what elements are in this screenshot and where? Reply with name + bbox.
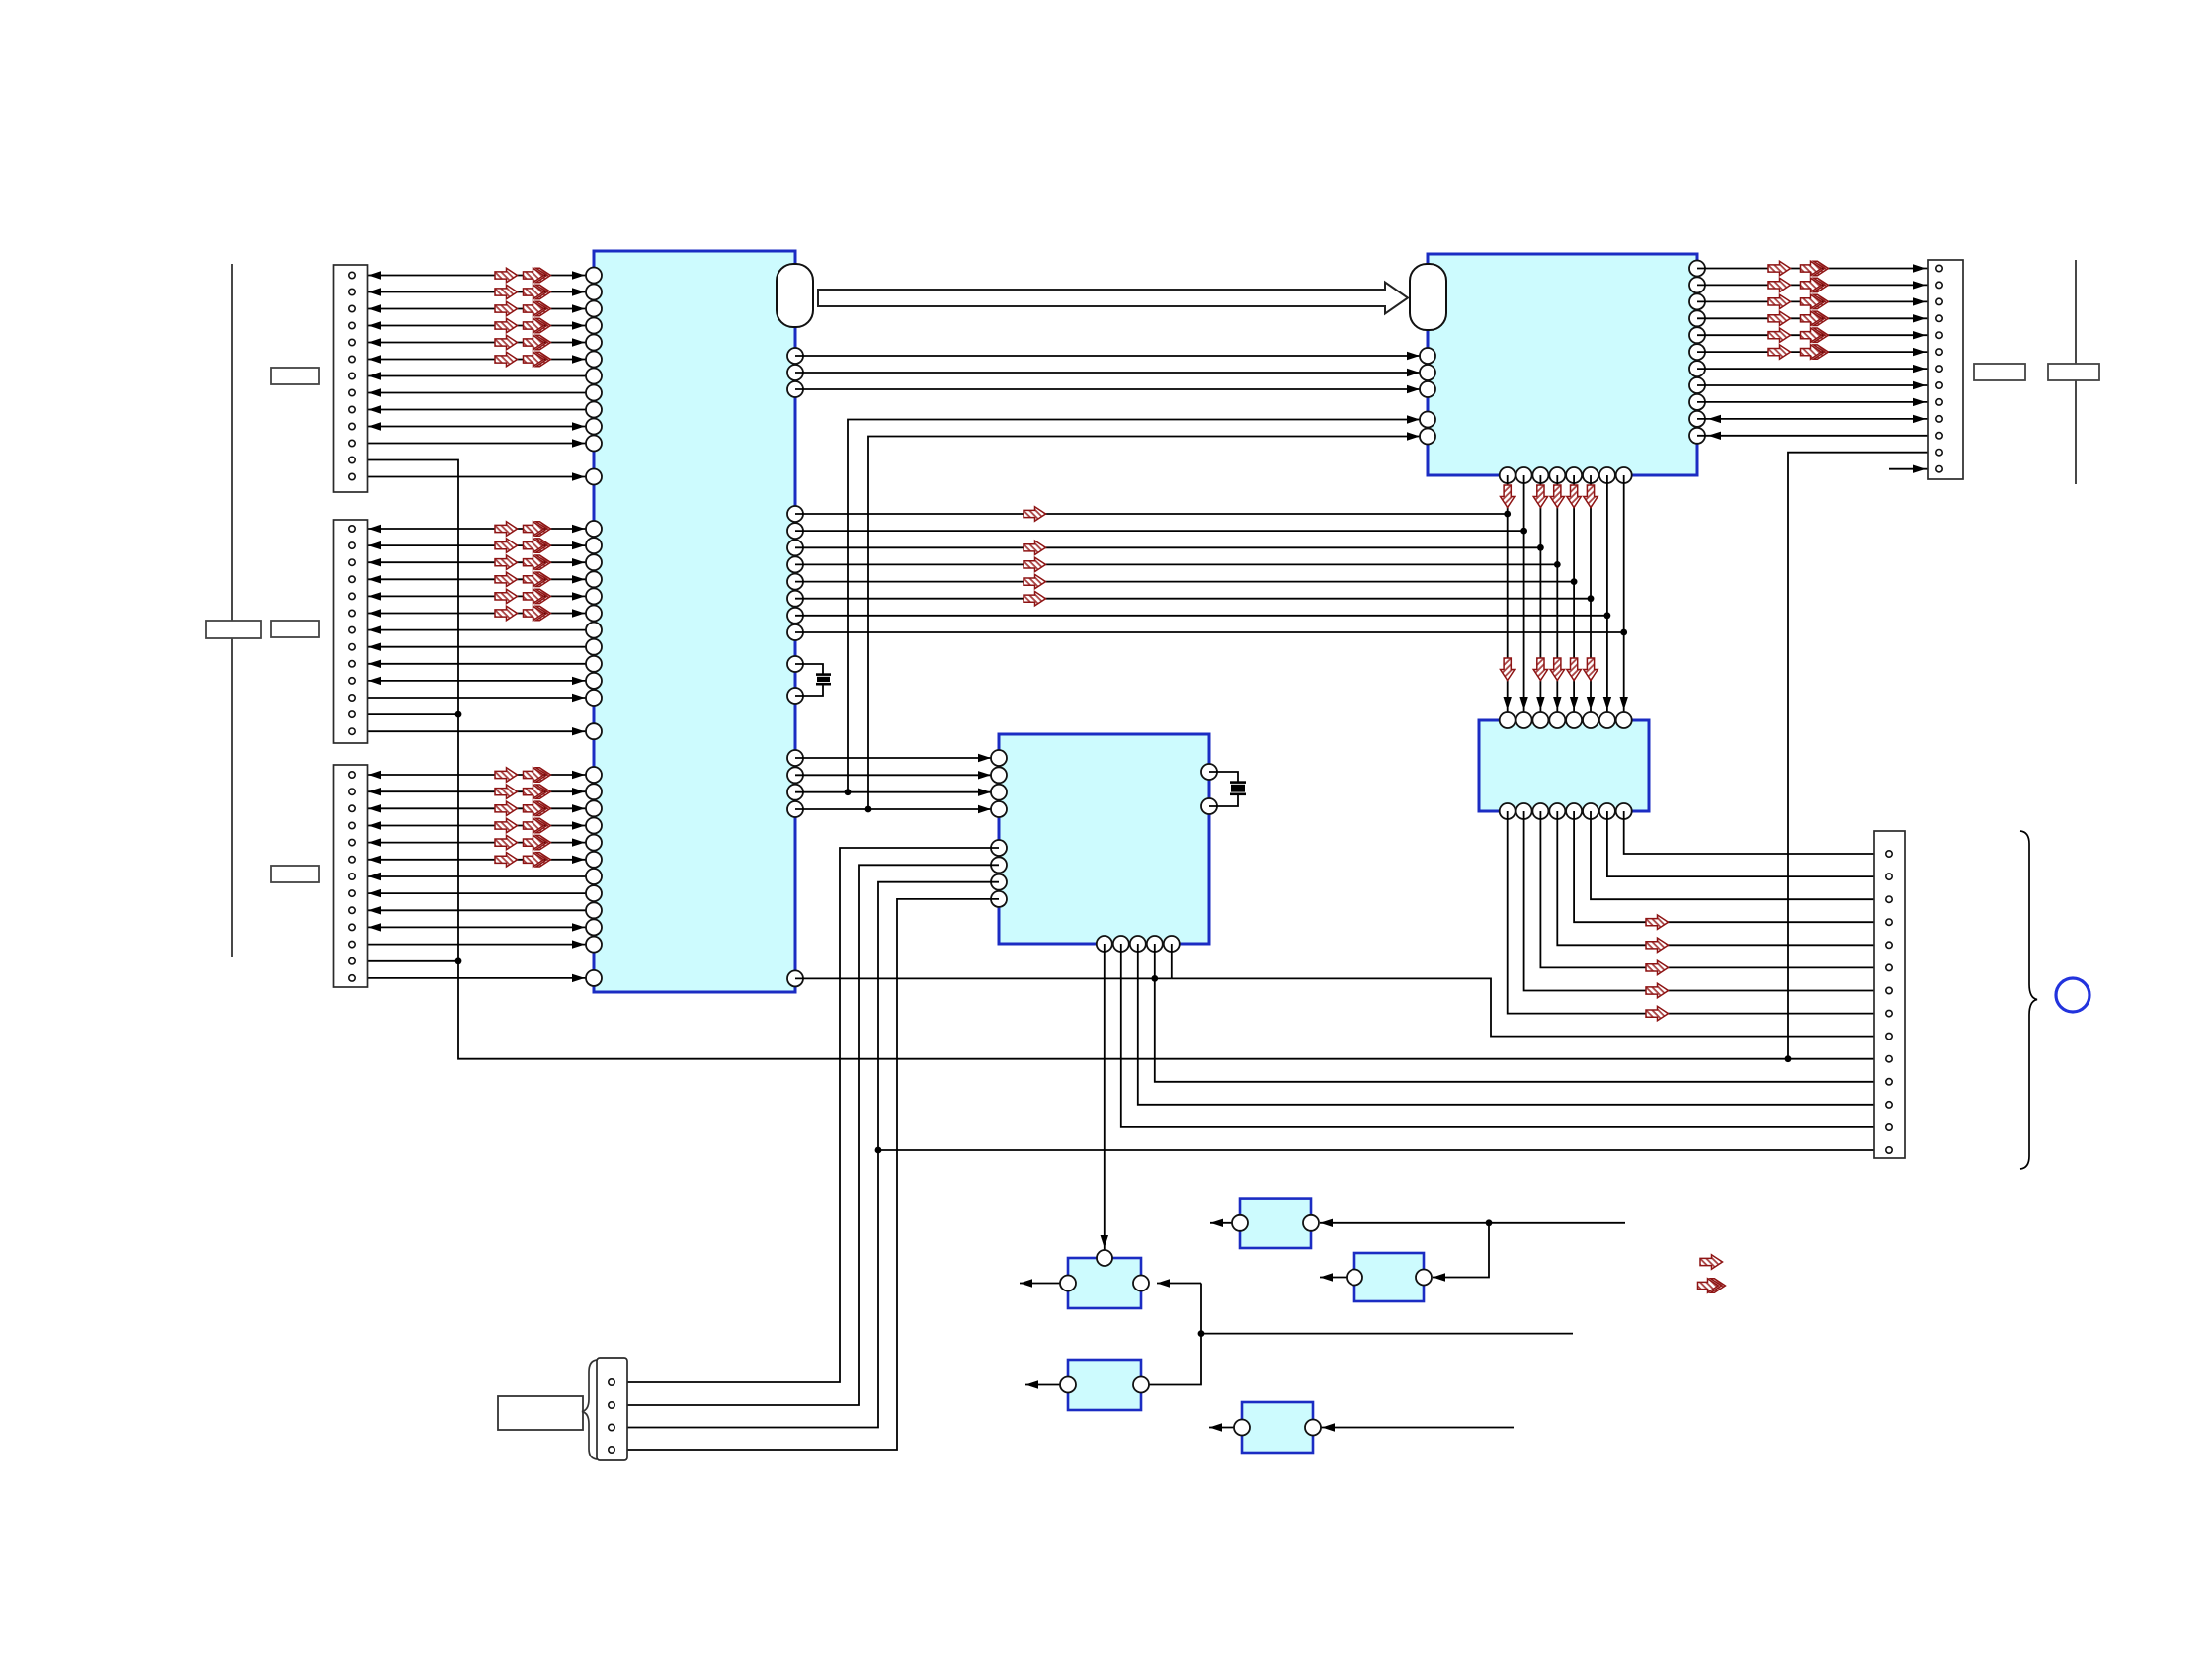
wires U4 to CN5 xyxy=(1508,811,1874,1014)
crystal X2 xyxy=(1209,772,1246,806)
reference circle xyxy=(2056,978,2089,1012)
connector CN1 xyxy=(334,265,368,492)
wire CN2 pin12 stub xyxy=(352,713,458,715)
junction Q2/Q3 net xyxy=(1486,1219,1493,1226)
wires CN3 to U1 xyxy=(352,771,594,982)
U3 left pins xyxy=(991,750,1007,907)
U1 left pins xyxy=(586,268,602,986)
wire stub left of Q1 xyxy=(1020,1283,1060,1285)
junction on CN2 pin12 bus xyxy=(455,711,462,718)
wire U2 pin4 from vertical node A xyxy=(848,420,1428,793)
label box on boundary line xyxy=(206,621,261,638)
wire junction to right open end xyxy=(1201,1333,1573,1335)
signal-flow arrows U2 to CN4 xyxy=(1768,261,1828,359)
IC U3 xyxy=(999,734,1209,944)
wire stub left of Q5 xyxy=(1209,1427,1234,1429)
wire U3 pin4 to CN5 row11 xyxy=(1155,944,1874,1082)
wire Q1 right to junction xyxy=(1157,1283,1201,1285)
connector CN5 xyxy=(1874,831,1905,1158)
8-line bus U1 to U2/U4 column xyxy=(795,514,1624,632)
wire CN4 pin12 down to far-right bus xyxy=(1788,453,1928,1059)
junction U3/CN5 row14 xyxy=(875,1147,882,1154)
wire U1 bottom pin to CN5 row9 xyxy=(795,977,1172,979)
wire U3 pin3 to CN5 row12 xyxy=(1138,944,1874,1105)
buffer Q1 xyxy=(1060,1250,1149,1308)
connector CN2 xyxy=(334,520,368,743)
RV1 brace xyxy=(582,1360,597,1459)
IC U1 (main LSI) xyxy=(594,251,795,992)
wires U3 to potentiometer RV1 xyxy=(615,848,999,1450)
wire U3 pin2 to CN5 row13 xyxy=(1121,944,1874,1127)
block data-bus arrow U1 to U2 xyxy=(818,283,1408,314)
wire stub left of Q2 xyxy=(1210,1222,1232,1224)
U2 port pill P2 xyxy=(1410,264,1446,330)
column wires U2 bottom to U4 top xyxy=(1504,475,1628,712)
buffer Q4 xyxy=(1060,1360,1149,1410)
signal-flow down arrows lower xyxy=(1501,658,1598,681)
connector CN6 (potentiometer) xyxy=(597,1358,627,1460)
wire Q5 right from open end xyxy=(1321,1427,1514,1429)
wire stub left of Q3 xyxy=(1320,1277,1347,1279)
junction node B xyxy=(865,806,872,813)
U2 left pins xyxy=(1420,348,1435,445)
wire U3 pin1 down to buffer Q1 xyxy=(1104,944,1106,1250)
label box L1 xyxy=(271,368,319,384)
wire stub into CN4 pin13 xyxy=(1889,468,1928,470)
wire bus CN1/CN2/CN3 pin12 to far-right connector row10 xyxy=(352,460,1874,1059)
wire U3 bottom pin5 elbow xyxy=(1171,944,1173,978)
wire junction column Q1/Q4 xyxy=(1149,1284,1201,1385)
buffer Q2 xyxy=(1232,1199,1319,1248)
connector CN3 xyxy=(334,765,368,987)
wire Q2 right from open end xyxy=(1320,1222,1625,1224)
IC U4 xyxy=(1479,720,1649,811)
right cable boundary line xyxy=(2075,260,2077,484)
junctions on bus columns xyxy=(1504,511,1627,636)
left cable boundary line xyxy=(231,264,233,957)
wires CN1 to U1 xyxy=(352,271,594,480)
label box L3 xyxy=(271,866,319,882)
buffer Q3 xyxy=(1347,1253,1432,1301)
wire U2 pin5 from vertical node B xyxy=(868,437,1428,810)
U1 port pill P1 xyxy=(777,264,813,327)
U4 top pins xyxy=(1500,712,1632,728)
wire stub left of Q4 xyxy=(1025,1384,1060,1386)
signal-flow down arrows upper xyxy=(1501,485,1598,508)
signal-flow arrow double (legend) xyxy=(1698,1279,1726,1292)
signal-flow arrows CN1 xyxy=(495,268,550,366)
signal-flow arrow single (legend) xyxy=(1700,1255,1723,1269)
wires U2 to CN4 xyxy=(1697,264,1928,440)
crystal X1 xyxy=(795,664,831,696)
wires U1 to U2 (3 lines) xyxy=(795,352,1428,393)
label box R2 on boundary line xyxy=(2048,364,2099,380)
junction CN4 pin12 / far-right row10 xyxy=(1785,1055,1792,1062)
U2 bottom pins xyxy=(1500,467,1632,483)
IC U2 xyxy=(1428,254,1697,475)
junction on CN3 pin12 bus xyxy=(455,957,462,964)
junction Q1 net xyxy=(1198,1330,1205,1337)
wire CN3 pin12 stub xyxy=(352,960,458,962)
potentiometer RV1 body xyxy=(498,1396,583,1430)
signal-flow arrows CN2 xyxy=(495,522,550,621)
wires U1 to U3 xyxy=(795,754,999,813)
U1 right pins xyxy=(787,348,803,986)
U3 right pins xyxy=(1201,764,1217,814)
signal-flow arrows on 8-line bus xyxy=(1024,507,1046,606)
label box R1 xyxy=(1974,364,2025,380)
signal-flow arrows CN3 xyxy=(495,768,550,867)
label box L2 xyxy=(271,621,319,637)
signal-flow arrows U4 to CN5 xyxy=(1646,915,1669,1021)
U3 bottom pins xyxy=(1097,936,1180,952)
U4 bottom pins xyxy=(1500,803,1632,819)
connector CN4 xyxy=(1928,260,1963,479)
junction U1-bottom / U3 column xyxy=(1151,975,1158,982)
wires CN2 to U1 xyxy=(352,525,594,736)
U2 right pins xyxy=(1689,261,1705,444)
brace for CN5 xyxy=(2020,831,2037,1169)
wire to CN5 row14 xyxy=(878,1149,1874,1151)
wire junction down to Q3 xyxy=(1433,1223,1489,1278)
junction node A xyxy=(845,789,852,795)
buffer Q5 xyxy=(1234,1402,1321,1453)
